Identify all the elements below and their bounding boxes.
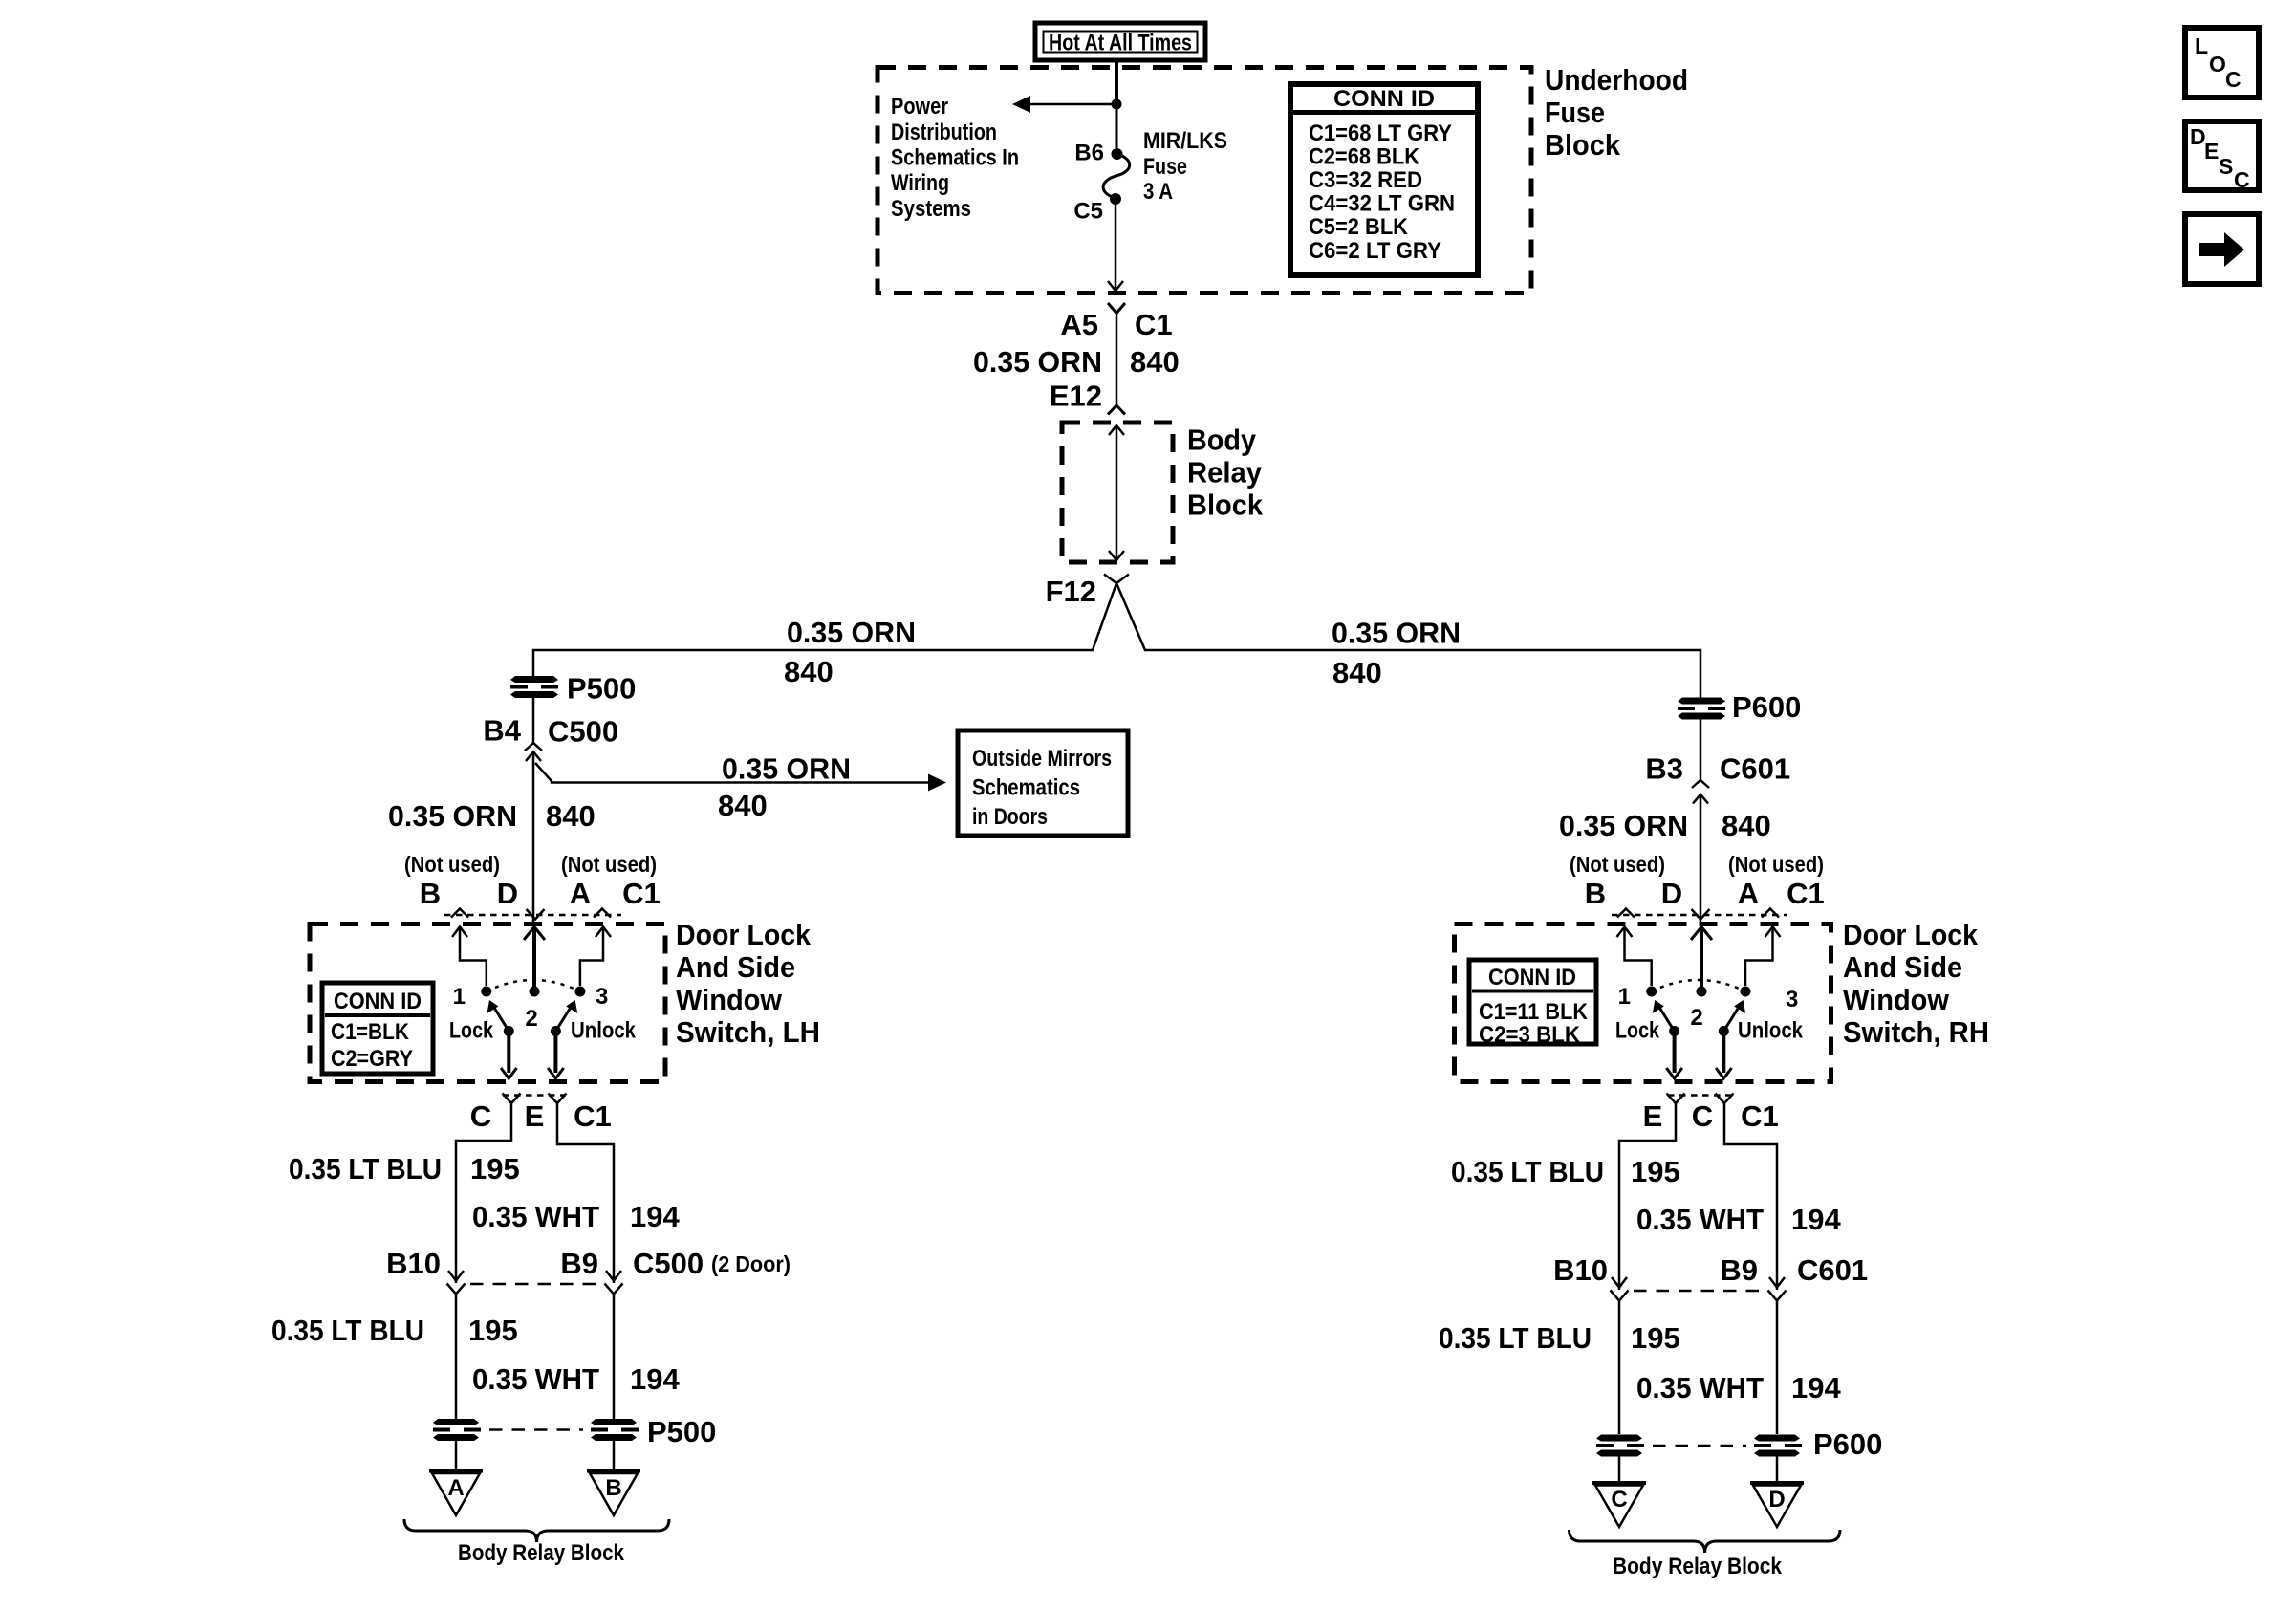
- svg-text:Wiring: Wiring: [891, 170, 949, 196]
- wire: pin E to left leg RH: [1619, 1103, 1676, 1290]
- terminal triangle D: [1750, 1483, 1804, 1527]
- switch contact arrow pin D RH (bold): [1691, 927, 1712, 988]
- svg-text:Body: Body: [1187, 424, 1257, 457]
- svg-text:E: E: [525, 1099, 545, 1133]
- svg-text:C1=68 LT GRY: C1=68 LT GRY: [1309, 120, 1452, 146]
- svg-text:B10: B10: [1553, 1253, 1608, 1287]
- wire: P600 to B3 fork: [1700, 720, 1702, 781]
- connector E12: fork arms down: [1108, 405, 1125, 415]
- svg-text:E: E: [1643, 1099, 1663, 1133]
- connector C1 dashed line LH: [444, 914, 621, 917]
- svg-text:Fuse: Fuse: [1143, 154, 1187, 180]
- svg-text:O: O: [2209, 52, 2226, 76]
- wire: A5 to E12: [1116, 314, 1118, 406]
- connector cavity chevron pin A LH: [594, 909, 611, 918]
- connector fork pin C RH: [1716, 1094, 1734, 1104]
- wire: P500 to triangle A: [455, 1441, 458, 1469]
- svg-text:840: 840: [718, 789, 768, 822]
- svg-text:A: A: [447, 1475, 464, 1501]
- svg-text:C4=32 LT GRN: C4=32 LT GRN: [1309, 191, 1455, 217]
- svg-text:MIR/LKS: MIR/LKS: [1143, 128, 1227, 154]
- connector B3/C601: up arrow of lower wire: [1693, 794, 1708, 924]
- svg-text:Unlock: Unlock: [571, 1018, 637, 1044]
- switch lower contact dot Lock LH: [504, 1026, 514, 1036]
- connector C500 in-line right leg: arrow down: [606, 1271, 621, 1281]
- switch contact arrow pin B LH: [452, 927, 487, 987]
- brace: body relay block LH: [404, 1519, 669, 1542]
- svg-text:194: 194: [1791, 1371, 1841, 1404]
- connector C2 dashed link below box LH: [503, 1094, 566, 1097]
- svg-text:CONN ID: CONN ID: [334, 989, 422, 1014]
- svg-text:P500: P500: [647, 1415, 716, 1448]
- wire: P500 to B4 fork: [532, 698, 535, 743]
- svg-text:0.35 ORN: 0.35 ORN: [1559, 809, 1688, 842]
- connector C2 dashed link below box RH: [1668, 1094, 1732, 1097]
- connector B4/C500: fork arms down: [525, 743, 542, 751]
- wire: through body relay block with arrows both ends: [1109, 425, 1124, 560]
- svg-text:3: 3: [596, 984, 608, 1010]
- svg-text:C: C: [470, 1099, 491, 1133]
- svg-text:3: 3: [1786, 987, 1798, 1012]
- svg-text:(Not used): (Not used): [561, 852, 657, 877]
- door lock switch LH dashed box: [310, 925, 665, 1082]
- svg-text:0.35 LT BLU: 0.35 LT BLU: [289, 1152, 442, 1186]
- connector C601 in-line right leg: fork below: [1768, 1291, 1787, 1435]
- SECTION: top fuse block: [877, 23, 1688, 294]
- door lock switch RH dashed box: [1455, 925, 1831, 1082]
- switch lower contact dot Lock RH: [1669, 1026, 1679, 1036]
- switch lever Unlock LH: [555, 1000, 577, 1032]
- svg-text:C1=11 BLK: C1=11 BLK: [1479, 999, 1589, 1025]
- grommet P600 right leg: [1754, 1435, 1802, 1457]
- svg-text:C6=2 LT GRY: C6=2 LT GRY: [1309, 238, 1441, 264]
- svg-text:C1: C1: [622, 877, 661, 910]
- switch output arrow E RH (bold down): [1666, 1032, 1682, 1079]
- switch lever Unlock RH: [1723, 1000, 1745, 1032]
- svg-text:194: 194: [630, 1362, 680, 1396]
- wire: F12 left diagonal branch: [533, 583, 1116, 677]
- svg-text:C1: C1: [574, 1099, 612, 1133]
- grommet P500 right leg: [591, 1419, 639, 1441]
- svg-text:B4: B4: [483, 714, 521, 748]
- grommet dashed link P500: [489, 1428, 583, 1431]
- fuse pin C5 dot: [1110, 193, 1121, 205]
- label: Power Distribution Schematics In Wiring Systems: [891, 94, 1019, 222]
- connector fork pin D LH: [527, 909, 545, 920]
- svg-text:A5: A5: [1060, 308, 1098, 341]
- svg-text:C500: C500: [633, 1247, 704, 1280]
- SECTION: middle: [388, 303, 1801, 924]
- switch pivot dot 2 LH: [530, 987, 540, 997]
- switch contact arrow pin A RH: [1745, 927, 1781, 987]
- switch pivot dot 1 RH: [1646, 987, 1657, 997]
- svg-text:B3: B3: [1645, 752, 1683, 786]
- svg-text:(Not used): (Not used): [404, 852, 500, 877]
- svg-text:Power: Power: [891, 94, 948, 120]
- label: conn C500 (2 Door): [633, 1247, 791, 1280]
- connector C1 dashed line RH: [1612, 914, 1787, 917]
- svg-text:840: 840: [1130, 345, 1180, 379]
- brace: body relay block RH: [1570, 1530, 1841, 1553]
- label: Door Lock And Side Window Switch, RH: [1843, 918, 1989, 1049]
- connector C500 in-line left leg: fork below: [447, 1284, 466, 1420]
- connector P600 grommet (right feed): [1678, 698, 1725, 720]
- svg-text:0.35 LT BLU: 0.35 LT BLU: [1439, 1321, 1592, 1355]
- svg-text:0.35 LT BLU: 0.35 LT BLU: [1451, 1155, 1604, 1188]
- svg-text:Window: Window: [676, 983, 783, 1016]
- wire: pin C to left leg LH: [456, 1103, 511, 1283]
- svg-text:195: 195: [1631, 1155, 1680, 1188]
- svg-text:B9: B9: [1720, 1253, 1758, 1287]
- wire: branch to outside mirrors schematics: [535, 763, 946, 792]
- svg-text:Door Lock: Door Lock: [676, 918, 812, 951]
- switch contact arrow pin B RH: [1617, 927, 1652, 987]
- svg-text:0.35 ORN: 0.35 ORN: [787, 616, 916, 649]
- svg-text:Fuse: Fuse: [1545, 96, 1605, 129]
- grommet P500 left leg: [433, 1419, 481, 1441]
- terminal triangle A: [429, 1471, 483, 1516]
- svg-text:840: 840: [1332, 656, 1382, 689]
- svg-text:Switch, LH: Switch, LH: [676, 1015, 820, 1049]
- svg-text:Schematics: Schematics: [972, 775, 1080, 801]
- svg-text:Body Relay Block: Body Relay Block: [458, 1540, 625, 1566]
- wire: to power distribution with solid left arrow: [1012, 96, 1116, 113]
- svg-text:A: A: [1738, 877, 1759, 910]
- svg-text:S: S: [2219, 154, 2233, 179]
- svg-text:Hot At All Times: Hot At All Times: [1049, 31, 1192, 56]
- svg-text:C: C: [2225, 67, 2242, 92]
- svg-text:194: 194: [630, 1200, 680, 1233]
- grommet P600 left leg: [1596, 1435, 1644, 1457]
- svg-text:(Not used): (Not used): [1728, 852, 1824, 877]
- label: Underhood Fuse Block: [1545, 63, 1688, 162]
- svg-text:B: B: [605, 1475, 621, 1501]
- switch lower contact dot Unlock RH: [1719, 1026, 1729, 1036]
- SECTION: right switch: [1439, 852, 1989, 1579]
- svg-text:C5=2 BLK: C5=2 BLK: [1309, 214, 1409, 240]
- svg-text:in Doors: in Doors: [972, 804, 1048, 830]
- svg-text:195: 195: [468, 1314, 518, 1347]
- svg-text:1: 1: [1618, 984, 1631, 1010]
- svg-text:B9: B9: [560, 1247, 598, 1280]
- connector C601 in-line left leg: fork below: [1611, 1291, 1629, 1435]
- svg-text:C1=BLK: C1=BLK: [331, 1019, 410, 1045]
- svg-text:2: 2: [1690, 1005, 1702, 1031]
- svg-text:C500: C500: [548, 715, 618, 749]
- wire: P600 to triangle D: [1776, 1457, 1779, 1482]
- svg-text:B: B: [1585, 877, 1606, 910]
- svg-text:B: B: [420, 877, 441, 910]
- CONN ID table (underhood fuse block): [1290, 84, 1478, 275]
- connector P500 grommet (left feed): [510, 676, 558, 698]
- svg-text:0.35 WHT: 0.35 WHT: [1636, 1371, 1764, 1404]
- svg-text:C601: C601: [1797, 1253, 1868, 1287]
- svg-text:C601: C601: [1720, 752, 1790, 786]
- svg-text:F12: F12: [1046, 575, 1096, 608]
- svg-text:C5: C5: [1073, 199, 1103, 225]
- wire: Hot At All Times feed (bold): [1115, 60, 1118, 104]
- switch pivot dot 3 RH: [1741, 987, 1751, 997]
- connector cavity chevron pin B LH: [451, 909, 468, 918]
- connector fork pin C LH: [503, 1094, 521, 1104]
- svg-text:Relay: Relay: [1187, 456, 1263, 490]
- svg-text:840: 840: [1722, 809, 1771, 842]
- fuse element S-curve: [1103, 154, 1130, 198]
- label: Body Relay Block: [1187, 424, 1264, 522]
- connector B4/C500: up arrow of lower wire: [526, 752, 541, 925]
- svg-text:Unlock: Unlock: [1738, 1018, 1804, 1044]
- svg-text:0.35 ORN: 0.35 ORN: [1332, 617, 1461, 650]
- SECTION: corner icons: [2185, 28, 2259, 284]
- svg-text:C1: C1: [1741, 1099, 1779, 1133]
- connector cavity chevron pin B RH: [1617, 909, 1635, 918]
- svg-text:195: 195: [1631, 1321, 1680, 1355]
- wire: fuse C5 down to block exit with open arrow: [1108, 199, 1123, 291]
- connector C601 in-line left leg: arrow down: [1612, 1277, 1627, 1288]
- svg-text:Lock: Lock: [1615, 1018, 1660, 1044]
- svg-text:840: 840: [546, 799, 596, 833]
- svg-text:P500: P500: [567, 672, 636, 706]
- svg-text:(Not used): (Not used): [1570, 852, 1665, 877]
- svg-text:B10: B10: [386, 1247, 441, 1280]
- switch lever Lock LH: [487, 1000, 509, 1032]
- svg-text:840: 840: [784, 655, 834, 688]
- wire: P500 to triangle B: [613, 1441, 616, 1469]
- switch output arrow C LH (bold down): [501, 1032, 517, 1079]
- connector fork pin E LH: [549, 1094, 567, 1104]
- svg-text:Door Lock: Door Lock: [1843, 918, 1979, 951]
- svg-text:And Side: And Side: [1843, 950, 1962, 984]
- svg-text:0.35 LT BLU: 0.35 LT BLU: [271, 1314, 424, 1347]
- svg-text:Body Relay Block: Body Relay Block: [1613, 1554, 1783, 1579]
- body relay block dashed box: [1062, 423, 1173, 562]
- CONN ID table LH: [322, 983, 433, 1074]
- connector C601 in-line right leg: arrow down: [1769, 1277, 1785, 1288]
- connector C1 pin A5: female fork: [1108, 303, 1125, 314]
- svg-text:E: E: [2204, 139, 2219, 163]
- connector cavity chevron pin A RH: [1762, 909, 1779, 918]
- switch output arrow E LH (bold down): [548, 1032, 564, 1079]
- svg-text:CONN ID: CONN ID: [1488, 965, 1576, 990]
- svg-text:0.35 WHT: 0.35 WHT: [472, 1200, 599, 1233]
- svg-text:CONN ID: CONN ID: [1333, 86, 1435, 112]
- switch pivot dot 2 RH: [1697, 987, 1707, 997]
- node: Outside Mirrors Schematics in Doors box: [958, 730, 1128, 836]
- switch contact arrow pin A LH: [580, 927, 611, 987]
- wire: junction to fuse pin B6: [1116, 104, 1118, 153]
- svg-text:C1: C1: [1787, 877, 1825, 910]
- svg-text:3 A: 3 A: [1143, 179, 1173, 205]
- wire: F12 right diagonal branch: [1116, 583, 1700, 698]
- svg-text:P600: P600: [1813, 1427, 1882, 1461]
- switch lower contact dot Unlock LH: [551, 1026, 561, 1036]
- switch common dotted arc RH: [1652, 980, 1745, 991]
- svg-text:Outside Mirrors: Outside Mirrors: [972, 746, 1112, 772]
- svg-text:And Side: And Side: [676, 950, 795, 984]
- svg-text:C2=68 BLK: C2=68 BLK: [1309, 144, 1420, 170]
- svg-text:195: 195: [470, 1152, 520, 1186]
- svg-text:B6: B6: [1074, 141, 1104, 166]
- svg-text:0.35 ORN: 0.35 ORN: [388, 799, 517, 833]
- wire: P600 to triangle C: [1618, 1457, 1621, 1482]
- svg-text:1: 1: [453, 984, 466, 1010]
- svg-text:Window: Window: [1843, 983, 1950, 1016]
- svg-text:194: 194: [1791, 1203, 1841, 1236]
- switch output arrow C RH (bold down): [1716, 1032, 1732, 1079]
- connector fork pin D RH: [1692, 909, 1710, 920]
- wire: pin C to right leg RH: [1724, 1103, 1777, 1290]
- label: Door Lock And Side Window Switch, LH: [676, 918, 820, 1049]
- switch pivot dot 3 LH: [574, 987, 585, 997]
- connector C500 in-line dashed link: [470, 1283, 600, 1286]
- svg-text:C: C: [1611, 1487, 1627, 1512]
- terminal triangle C: [1592, 1483, 1646, 1527]
- connector C601 in-line dashed link: [1634, 1290, 1764, 1293]
- svg-text:2: 2: [525, 1006, 537, 1032]
- svg-text:C1: C1: [1135, 308, 1173, 341]
- button: next arrow: [2185, 214, 2259, 284]
- connector F12: X splice: [1104, 575, 1129, 584]
- svg-text:Schematics In: Schematics In: [891, 145, 1019, 171]
- connector C500 in-line right leg: fork below: [605, 1284, 623, 1420]
- svg-text:A: A: [570, 877, 591, 910]
- wire: pin E to right leg LH: [557, 1103, 614, 1283]
- node junction dot: [1112, 99, 1122, 110]
- svg-text:C2=GRY: C2=GRY: [331, 1046, 413, 1072]
- terminal triangle B: [587, 1471, 640, 1516]
- svg-text:Distribution: Distribution: [891, 120, 997, 145]
- svg-text:Lock: Lock: [449, 1018, 494, 1044]
- svg-text:C3=32 RED: C3=32 RED: [1309, 167, 1422, 193]
- svg-text:Block: Block: [1187, 489, 1264, 522]
- svg-text:D: D: [497, 877, 518, 910]
- SECTION: left switch: [271, 852, 820, 1566]
- svg-text:Systems: Systems: [891, 196, 971, 222]
- svg-text:L: L: [2195, 33, 2208, 58]
- svg-text:Switch, RH: Switch, RH: [1843, 1015, 1989, 1049]
- svg-text:Underhood: Underhood: [1545, 63, 1688, 97]
- svg-text:E12: E12: [1050, 380, 1102, 413]
- svg-text:D: D: [1768, 1487, 1785, 1512]
- switch contact arrow pin D LH (bold): [524, 927, 545, 988]
- button: LOC: [2185, 28, 2259, 98]
- CONN ID table RH: [1469, 960, 1596, 1048]
- svg-text:C: C: [2234, 167, 2250, 192]
- svg-text:C: C: [1692, 1099, 1713, 1133]
- fuse MIR/LKS 3A: pin B6 dot: [1112, 148, 1123, 160]
- connector C500 in-line left leg: arrow down: [448, 1271, 464, 1281]
- svg-text:0.35 ORN: 0.35 ORN: [722, 752, 851, 786]
- button: DESC: [2185, 121, 2259, 192]
- svg-text:0.35 WHT: 0.35 WHT: [472, 1362, 599, 1396]
- node: Hot At All Times power box: [1035, 23, 1205, 60]
- switch pivot dot 1 LH: [481, 987, 491, 997]
- svg-text:(2 Door): (2 Door): [711, 1251, 791, 1276]
- grommet dashed link P600: [1653, 1445, 1746, 1447]
- svg-text:0.35 ORN: 0.35 ORN: [973, 345, 1102, 379]
- svg-text:P600: P600: [1732, 690, 1801, 724]
- svg-text:Block: Block: [1545, 128, 1621, 162]
- switch lever Lock RH: [1653, 1000, 1675, 1032]
- connector fork pin E RH: [1667, 1094, 1685, 1104]
- label: MIR/LKS Fuse 3 A: [1143, 128, 1227, 205]
- switch common dotted arc LH: [487, 980, 580, 991]
- underhood fuse block dashed box: [877, 68, 1531, 294]
- svg-text:C2=3 BLK: C2=3 BLK: [1479, 1022, 1581, 1048]
- connector B3/C601: fork arms down: [1692, 780, 1709, 788]
- svg-text:D: D: [1661, 877, 1682, 910]
- svg-text:0.35 WHT: 0.35 WHT: [1636, 1203, 1764, 1236]
